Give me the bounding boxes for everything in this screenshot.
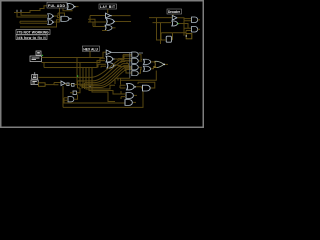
wire long bottom h1: [63, 101, 125, 103]
wire L4 stub down: [89, 51, 91, 57]
drop wire d3: [83, 68, 95, 88]
wire bottom v-left: [62, 86, 64, 107]
wire U16 out: [139, 60, 142, 62]
white dot S1: [186, 35, 187, 36]
wire comb h4: [93, 22, 105, 27]
wire decoder v3: [184, 21, 186, 36]
wire U17 out: [139, 66, 142, 68]
wire U10 out stub: [198, 19, 200, 21]
node N3: [73, 91, 76, 94]
green dot pin1: [42, 55, 43, 56]
svg-text:ITS NOT WORKING: ITS NOT WORKING: [17, 31, 49, 35]
xor U20: [143, 66, 150, 71]
wire U26 out: [134, 94, 137, 96]
wire U3 output stub: [69, 18, 71, 20]
fan wire f3: [86, 66, 129, 85]
xor U1: [48, 14, 53, 19]
xor U6: [106, 19, 114, 25]
xor U7: [105, 25, 112, 30]
dot U1 out: [53, 16, 54, 17]
wire U25 out: [138, 82, 155, 88]
wire B2 left: [161, 39, 166, 41]
wire to U10 inputs: [184, 19, 192, 21]
wire comb h1 to U5: [90, 15, 105, 17]
wire U1 out up to U4: [58, 13, 65, 16]
wire P2 to T3: [45, 83, 61, 85]
and U15: [132, 52, 138, 57]
wire input bus to XOR U4: [14, 6, 47, 13]
wire U6 output: [115, 21, 131, 23]
note line 1 box: [16, 30, 50, 35]
wire comb h2: [88, 19, 95, 26]
wire U24 out: [134, 87, 142, 88]
wire to U11 inputs: [184, 28, 192, 30]
drop wire d2: [80, 63, 94, 86]
green dash d1: [77, 75, 78, 77]
dot U14 out: [114, 65, 115, 66]
fan wire f6: [39, 60, 125, 78]
wire U2 out to U4 input: [53, 7, 68, 22]
wire col U17 input2: [125, 68, 132, 71]
buffer U22: [61, 81, 65, 86]
and U23: [68, 97, 74, 102]
and U17: [132, 65, 138, 70]
wire B to U1 bottom input: [17, 13, 47, 17]
wire stub left of U7: [102, 30, 107, 32]
input stub B: [20, 10, 22, 14]
buffer U8: [172, 16, 177, 21]
and U3: [61, 16, 69, 21]
wire comb h3: [88, 21, 106, 23]
wire comb v1: [89, 16, 91, 23]
node N2: [72, 83, 75, 86]
and U10: [192, 17, 198, 23]
wire return loop right: [120, 71, 156, 81]
svg-text:HEX ALU: HEX ALU: [83, 47, 98, 51]
xor U4: [67, 4, 74, 10]
white dot U4 out: [74, 6, 75, 7]
and U16: [132, 58, 138, 63]
wire decoder v1: [157, 18, 162, 40]
wire col top second input: [123, 55, 132, 58]
input stub A: [16, 10, 18, 14]
xor U24: [127, 84, 135, 90]
wire U18 out: [139, 69, 142, 73]
drop wire d1: [77, 58, 93, 85]
wire U11 out stub: [198, 28, 200, 30]
wire U26 inputs: [121, 91, 126, 99]
wire A to U1 top input: [21, 13, 47, 15]
wire T3-N1-N2: [65, 83, 78, 85]
wire stub below L3: [172, 14, 174, 16]
fan wire f5: [78, 62, 125, 81]
and U27: [125, 100, 132, 106]
wire decoder v2: [160, 23, 162, 44]
label L4 box: [82, 46, 99, 51]
xor U2: [48, 20, 53, 25]
wire pins bus h2: [42, 58, 106, 62]
pin P1b box: [30, 56, 42, 62]
wire U24 inputs: [120, 85, 126, 88]
wire long bottom h2: [63, 91, 143, 107]
pin P1a box: [36, 51, 41, 55]
wire U15 out: [139, 55, 142, 60]
wire U1 out to U3: [53, 16, 62, 18]
fan verticals into column: [124, 56, 132, 73]
buffer U5: [106, 13, 111, 18]
olive small rect by P2b: [39, 83, 46, 87]
wire U7 output: [112, 27, 115, 29]
svg-text:Decoder: Decoder: [168, 10, 181, 14]
drop wire d6: [92, 68, 115, 102]
svg-text:idk how to fix it: idk how to fix it: [17, 36, 46, 40]
wire col U16 inputs: [118, 59, 132, 63]
wire U8 out: [177, 18, 184, 21]
and U18: [132, 71, 138, 76]
dot U13 out: [113, 58, 114, 59]
and U25: [143, 85, 151, 91]
dot U2 out: [53, 22, 54, 23]
xor U14: [107, 63, 114, 69]
dot U6 out: [114, 21, 115, 22]
note line 2 box: [16, 35, 47, 40]
label L3 box: [167, 9, 182, 14]
wire N3 stubs: [70, 88, 80, 93]
wire stub below L2: [107, 9, 109, 13]
wire U21 out: [165, 63, 168, 65]
svg-text:LAY BIT: LAY BIT: [100, 5, 115, 9]
pin P2a stub: [34, 72, 36, 74]
white dot U21 out: [163, 64, 165, 65]
dot U24 out: [135, 86, 136, 87]
wire top stub grey: [139, 52, 143, 54]
dot U5 out: [111, 15, 112, 16]
or U21 upper: [155, 61, 164, 67]
wire U4 output: [76, 6, 79, 8]
green dot U9 out: [178, 23, 179, 24]
svg-text:FUL ADD: FUL ADD: [48, 4, 65, 8]
xor U19: [143, 59, 150, 64]
drop wire d4: [86, 68, 115, 90]
wire U13 out: [113, 59, 118, 61]
wire decoder input h1: [149, 17, 172, 19]
wire U23 inputs: [64, 98, 68, 103]
drop wire d5: [89, 68, 121, 95]
wire U23 out: [74, 95, 77, 100]
wire loop to S1: [173, 32, 187, 34]
grey vertical wire: [129, 52, 131, 78]
wire bottom run to U3: [20, 20, 61, 27]
node N1: [67, 83, 69, 86]
pin P2a box: [32, 75, 38, 79]
wire to U2 inputs: [20, 21, 47, 23]
label L2 box: [99, 4, 117, 9]
fan wire f1: [88, 70, 132, 88]
wire U14 inputs: [98, 64, 106, 67]
wire U20 out: [151, 67, 156, 69]
wire U14 out: [114, 65, 131, 66]
buffer U12: [106, 50, 111, 55]
or U21 lower: [155, 61, 158, 67]
fan wire f2: [88, 67, 132, 86]
wire U27 out: [133, 101, 136, 103]
wire U19 out: [151, 61, 156, 63]
wire decoder input h2: [153, 22, 172, 24]
wire U12 out grey: [111, 51, 131, 53]
xor U13: [106, 56, 113, 62]
olive loop rect: [161, 33, 173, 40]
wire pins bus h1: [42, 52, 107, 57]
vertical risers mid: [78, 81, 86, 89]
pin P2b box: [31, 80, 38, 85]
label L1 FULL ADD box: [47, 2, 67, 8]
fan wire f4: [85, 64, 127, 83]
junction dot j1: [90, 85, 91, 86]
wire U5 output: [112, 15, 131, 17]
and U11: [192, 27, 198, 33]
olive square S1: [186, 34, 192, 39]
border frame: [1, 1, 204, 128]
wire U9 out: [179, 24, 188, 29]
white box B2: [166, 36, 171, 42]
xor U9: [172, 21, 178, 26]
and U26: [126, 93, 133, 99]
wire stub below label L1: [63, 9, 72, 11]
vertical riser bundle: [115, 78, 130, 84]
wire pins bus h3: [44, 61, 105, 68]
